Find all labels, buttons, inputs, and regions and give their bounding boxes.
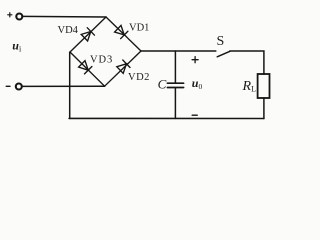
wire from + terminal to bridge top vertex <box>23 15 106 18</box>
label - (output polarity) <box>192 114 197 116</box>
wire bridge left vertex down to bottom rail <box>69 52 71 118</box>
wire bridge edge: top vertex to right vertex (VD1 branch) <box>106 17 141 51</box>
svg-text:VD2: VD2 <box>128 72 150 83</box>
wire bridge right vertex to switch left contact <box>141 50 216 52</box>
diode VD3 <box>79 61 92 74</box>
wire bridge edge: left vertex to bottom vertex (VD3 branch) <box>70 52 105 86</box>
diode VD1 <box>115 25 128 38</box>
svg-text:u0: u0 <box>192 76 203 91</box>
switch S blade <box>217 51 230 57</box>
wire switch right contact to top-right corner <box>230 51 264 74</box>
svg-text:ui: ui <box>12 39 22 54</box>
resistor R_L <box>258 74 270 98</box>
diode VD2 <box>117 60 130 73</box>
capacitor C bottom lead <box>174 88 176 119</box>
svg-text:VD3: VD3 <box>90 54 113 65</box>
label + (input polarity) <box>8 13 12 17</box>
svg-text:S: S <box>217 34 225 49</box>
capacitor C top lead <box>174 51 176 83</box>
wire from - terminal to bridge bottom vertex <box>22 85 105 87</box>
svg-text:VD1: VD1 <box>129 23 149 34</box>
diode VD4 <box>81 28 94 41</box>
wire bottom rail <box>69 117 264 119</box>
wire bridge edge: bottom vertex to right vertex (VD2 branch) <box>105 51 141 86</box>
terminal - (input) <box>16 84 22 90</box>
label - (input polarity) <box>6 85 10 87</box>
svg-text:VD4: VD4 <box>58 25 79 36</box>
svg-text:C: C <box>158 77 167 92</box>
terminal + (input) <box>16 14 22 20</box>
wire R_L bottom to bottom rail <box>263 98 265 119</box>
svg-text:RL: RL <box>242 79 257 94</box>
wire bridge edge: left vertex to top vertex (VD4 branch) <box>70 17 106 52</box>
capacitor C plates <box>167 83 183 87</box>
label + (output polarity) <box>192 57 198 63</box>
